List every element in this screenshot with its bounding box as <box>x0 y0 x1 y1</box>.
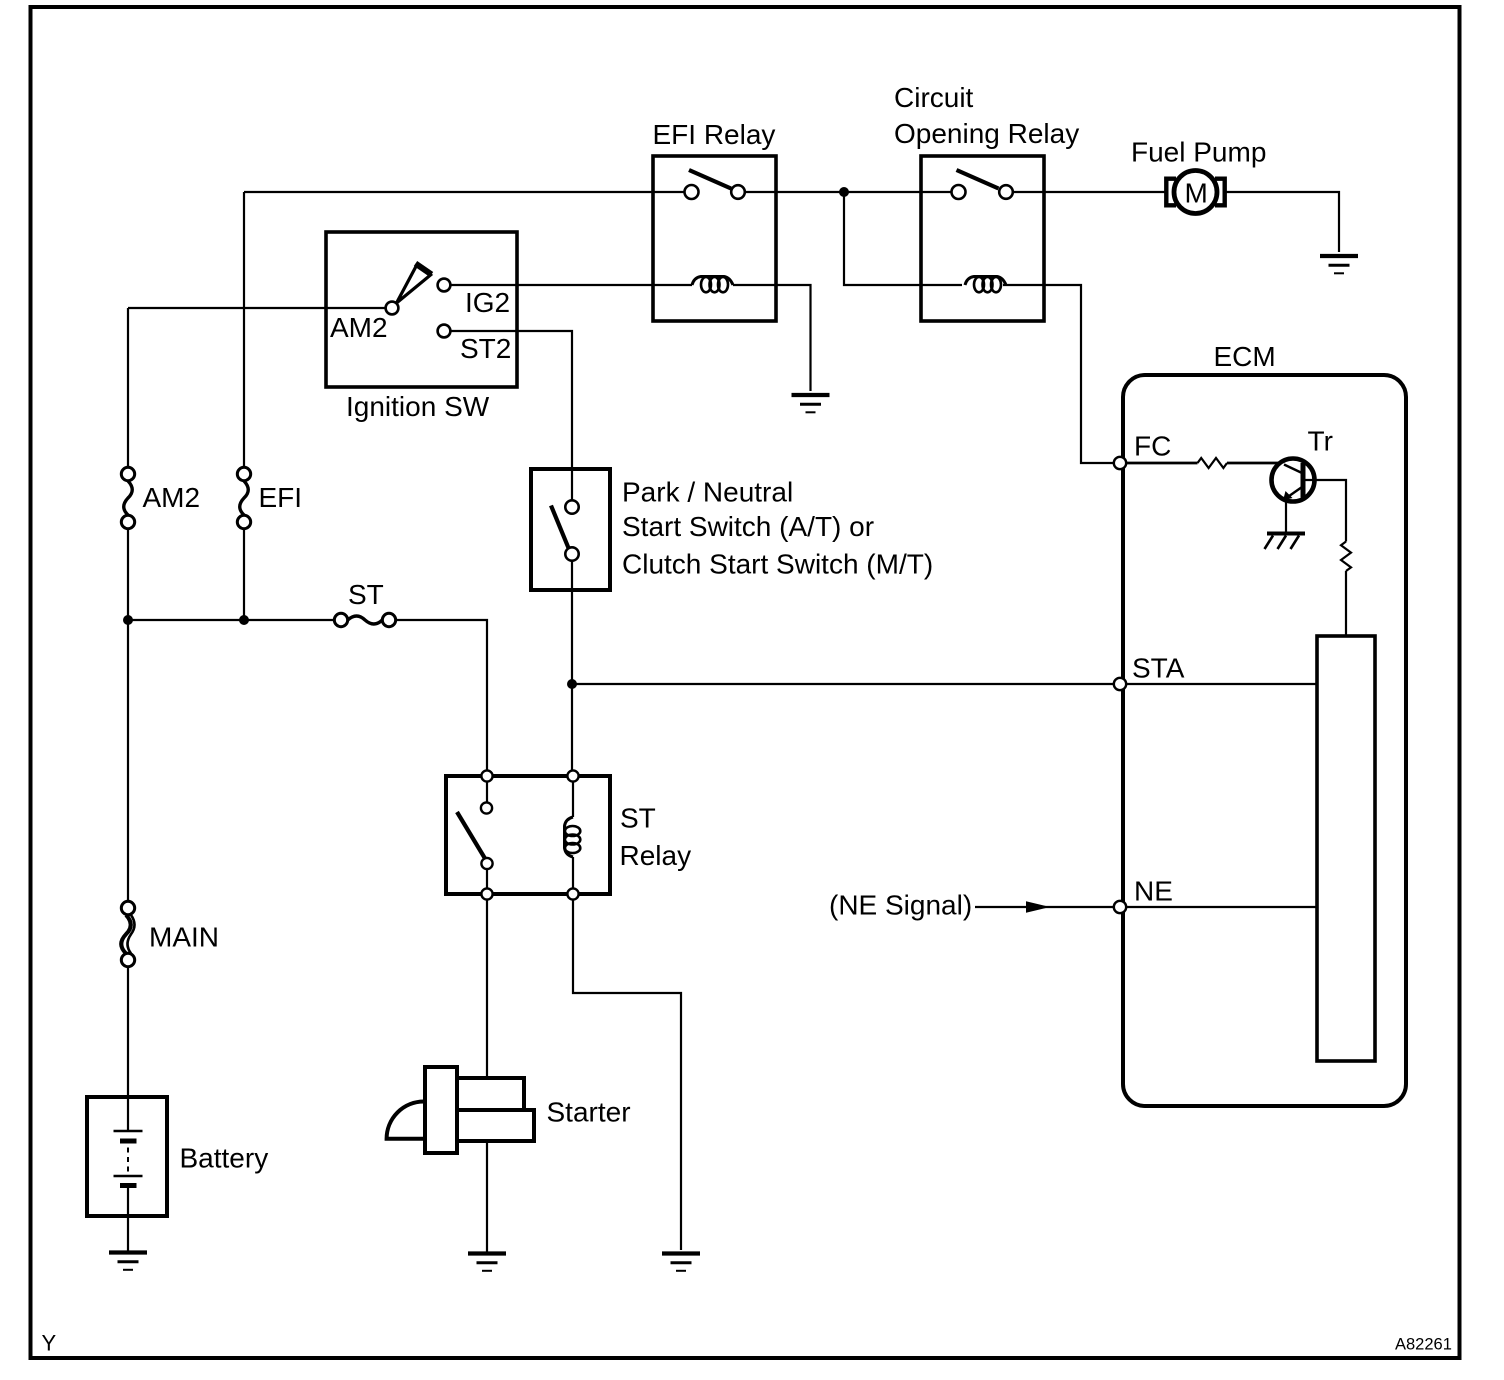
junction node AM2/bus <box>123 615 133 625</box>
ignition key lever <box>397 264 432 304</box>
ST relay coil vertical <box>565 817 581 857</box>
EFI relay right contact <box>731 185 745 199</box>
transistor Tr <box>1272 459 1315 502</box>
park/neutral switch box <box>531 469 610 590</box>
COR left contact <box>952 185 966 199</box>
ignition ST2 contact <box>438 325 451 338</box>
svg-text:ST2: ST2 <box>460 333 511 364</box>
ignition IG2 contact <box>438 279 451 292</box>
terminal STA <box>1114 678 1126 690</box>
wire ST relay right leg to ground <box>573 900 681 1251</box>
ground fuel pump <box>1320 256 1358 273</box>
wire COR coil to FC <box>1003 285 1114 463</box>
ground ST relay leg <box>662 1254 700 1271</box>
svg-text:A82261: A82261 <box>1395 1336 1452 1354</box>
wire ST fuse to ST relay drop <box>396 620 488 771</box>
wire emitter to chassis ground <box>1285 500 1287 532</box>
wire resistor to transistor <box>1227 462 1284 465</box>
ECM box <box>1123 375 1406 1106</box>
wire top bus from EFI vertical to EFI relay left contact <box>244 191 685 193</box>
svg-text:AM2: AM2 <box>330 312 388 343</box>
fuse EFI <box>237 467 250 528</box>
circuit opening relay box <box>921 156 1044 321</box>
wire collector <box>1304 480 1346 542</box>
svg-text:Relay: Relay <box>620 840 692 871</box>
wire junction to COR coil <box>844 192 962 285</box>
COR right contact <box>999 185 1013 199</box>
battery internals <box>114 1097 143 1216</box>
ground starter <box>468 1254 506 1271</box>
wire COR right contact to fuel pump <box>1013 191 1165 193</box>
ST relay terminal top-right <box>567 770 578 781</box>
svg-text:ST: ST <box>620 803 656 834</box>
ECM internal block <box>1317 636 1375 1061</box>
wire STA inside ECM <box>1127 683 1318 685</box>
wire MAIN fuse to battery <box>127 967 129 1098</box>
svg-text:IG2: IG2 <box>465 287 510 318</box>
svg-text:MAIN: MAIN <box>149 922 219 953</box>
svg-text:(NE Signal): (NE Signal) <box>829 890 972 921</box>
svg-text:Circuit: Circuit <box>894 82 974 113</box>
svg-text:Opening Relay: Opening Relay <box>894 118 1079 149</box>
svg-text:Tr: Tr <box>1308 426 1333 457</box>
EFI relay coil <box>692 277 733 293</box>
wire junction to MAIN fuse <box>127 620 129 902</box>
svg-text:Y: Y <box>42 1331 57 1356</box>
wire NE signal <box>975 906 1114 908</box>
fuel pump motor <box>1166 171 1224 214</box>
junction node EFI/bus <box>239 615 249 625</box>
ST relay inner bottom contact <box>481 858 492 869</box>
svg-text:FC: FC <box>1134 431 1171 462</box>
wire starter to ground <box>486 1141 488 1252</box>
svg-text:EFI Relay: EFI Relay <box>653 119 776 150</box>
svg-text:ST: ST <box>348 579 384 610</box>
ST relay terminal bottom-left <box>481 888 492 899</box>
svg-text:Start Switch (A/T) or: Start Switch (A/T) or <box>622 511 874 542</box>
ST relay inner top contact <box>481 802 492 813</box>
chassis ground transistor <box>1265 534 1306 550</box>
battery box <box>87 1097 167 1216</box>
svg-text:Starter: Starter <box>547 1097 631 1128</box>
terminal FC <box>1114 457 1126 469</box>
wire fuel pump to ground drop <box>1225 192 1339 252</box>
terminal NE <box>1114 901 1126 913</box>
svg-text:Battery: Battery <box>180 1143 269 1174</box>
wire park/neutral switch to ST relay <box>571 561 573 771</box>
wire EFI fuse to junction <box>243 529 245 621</box>
wire EFI relay right contact to COR left contact through junction <box>745 191 952 193</box>
ST relay wire bottom contact to terminal <box>486 869 488 889</box>
P/N bottom contact <box>565 547 578 560</box>
wire AM2 fuse to junction <box>127 529 129 621</box>
ST relay wire coil stubs <box>572 781 574 889</box>
wire NE inside ECM <box>1127 906 1318 908</box>
fuse AM2 <box>121 467 134 528</box>
P/N top contact <box>565 500 578 513</box>
fuse MAIN <box>121 901 134 966</box>
wire EFI branch vertical x=244 <box>243 192 245 468</box>
EFI relay blade <box>689 170 731 189</box>
wire IG2 to EFI relay coil <box>451 284 693 286</box>
arrow NE signal <box>1026 901 1050 913</box>
fuse ST <box>334 613 395 626</box>
wire ST2 to park/neutral switch <box>451 331 573 501</box>
svg-text:ECM: ECM <box>1214 341 1276 372</box>
wire FC to resistor <box>1127 462 1198 465</box>
P/N blade <box>551 506 569 549</box>
wire AM2 horizontal to ignition switch <box>128 307 386 309</box>
wire resistor to block <box>1345 571 1347 636</box>
resistor FC <box>1198 458 1228 468</box>
ST relay terminal top-left <box>481 770 492 781</box>
COR coil <box>965 277 1006 293</box>
svg-text:NE: NE <box>1134 876 1173 907</box>
svg-text:Ignition SW: Ignition SW <box>346 391 490 422</box>
starter <box>387 1067 534 1153</box>
svg-text:M: M <box>1185 178 1208 209</box>
svg-text:Fuel Pump: Fuel Pump <box>1131 137 1266 168</box>
ST relay box <box>446 776 610 894</box>
resistor collector vertical <box>1341 542 1351 572</box>
ground EFI relay <box>792 395 830 412</box>
EFI relay box <box>653 156 776 321</box>
junction node STA <box>567 679 577 689</box>
wire AM2 vertical to fuse <box>127 308 129 468</box>
EFI relay left contact <box>685 185 699 199</box>
ST relay blade <box>457 812 485 859</box>
wire battery to ground <box>127 1216 129 1252</box>
ignition switch box <box>326 232 517 387</box>
svg-text:Park / Neutral: Park / Neutral <box>622 477 793 508</box>
ST relay terminal bottom-right <box>567 888 578 899</box>
junction node bus <box>839 187 849 197</box>
svg-text:AM2: AM2 <box>143 482 201 513</box>
COR blade <box>957 170 999 189</box>
wire STA to ECM <box>572 683 1114 685</box>
ST relay wire top-left terminal to contact <box>486 781 488 803</box>
ignition AM2 contact <box>386 302 399 315</box>
wire EFI relay coil to ground drop <box>733 285 811 391</box>
ground battery <box>109 1253 147 1270</box>
wire bus y=620 to ST fuse <box>128 619 335 621</box>
svg-text:EFI: EFI <box>259 482 303 513</box>
svg-text:Clutch Start Switch (M/T): Clutch Start Switch (M/T) <box>622 549 933 580</box>
wire ST relay to starter <box>486 900 488 1079</box>
svg-text:STA: STA <box>1132 653 1185 684</box>
